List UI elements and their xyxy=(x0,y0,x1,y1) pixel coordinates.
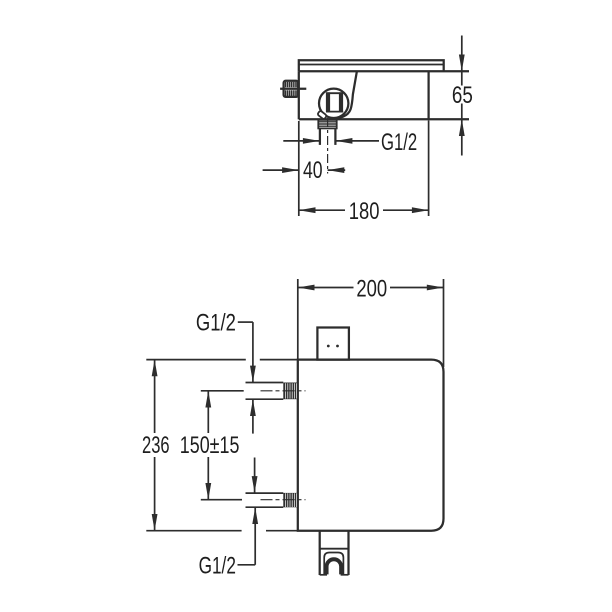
arrow 180 left xyxy=(299,207,316,213)
dim G1/2 right arrow line xyxy=(336,140,379,142)
svg-text:40: 40 xyxy=(303,157,323,184)
G1/2 bottom down arrow line xyxy=(254,458,256,493)
G1/2 top up arrow line xyxy=(252,399,254,433)
spout corner curve xyxy=(329,71,357,119)
plate bottom edge + 65 extension line xyxy=(299,70,469,72)
G1/2 top leader vertical (down arrow) xyxy=(252,322,254,382)
dim 180 line right part xyxy=(383,209,429,211)
handle square top line xyxy=(326,92,343,94)
arrowheads top view xyxy=(282,55,465,214)
dim 65 line lower xyxy=(461,104,463,156)
svg-text:236: 236 xyxy=(142,432,170,459)
shower bracket neck left xyxy=(319,531,321,575)
dim 40 right arrow line xyxy=(328,169,346,171)
dim 236 extension top xyxy=(146,359,297,361)
temp knob knurl xyxy=(286,82,297,96)
holder bottom right edge xyxy=(341,574,349,576)
inlet bottom center line xyxy=(261,499,306,501)
dim 150 line lower xyxy=(207,457,209,500)
handle circle xyxy=(319,89,348,118)
bracket shelf line xyxy=(320,548,349,550)
dim 200 left extension xyxy=(297,279,299,360)
dim 236 line lower xyxy=(154,457,156,531)
G1/2 top leader horizontal xyxy=(238,321,253,323)
arrow 40 right tip xyxy=(282,167,299,173)
dim 150 line upper xyxy=(207,391,209,433)
dim 200 right extension xyxy=(443,279,445,367)
dim 180 left extension xyxy=(298,121,300,216)
arrow 40 left tip xyxy=(328,167,345,173)
arrow G1/2 top up xyxy=(250,399,256,416)
body bottom edge + 65 extension line xyxy=(299,118,469,120)
temp knob body (left, top view) xyxy=(284,81,299,97)
arrowheads front view xyxy=(152,285,444,531)
arrow 150 up xyxy=(205,391,211,408)
top connector box xyxy=(317,328,349,360)
connector dot right xyxy=(336,345,339,348)
temp knob axis line xyxy=(280,88,306,90)
body left edge xyxy=(298,71,300,119)
arrow G1/2 left tip xyxy=(336,138,353,144)
arrow 236 up xyxy=(152,360,158,377)
dim 65 line upper xyxy=(461,36,463,86)
G1/2 bottom leader horizontal xyxy=(238,564,256,566)
outlet center line (dash-dot) xyxy=(327,118,329,174)
dim 150 extension top xyxy=(201,390,244,392)
svg-text:65: 65 xyxy=(452,82,473,109)
inlet top extension top xyxy=(246,382,284,384)
handle square left bar xyxy=(326,92,330,112)
arrow G1/2 bottom up xyxy=(252,507,258,524)
dim 180 right extension xyxy=(428,121,430,217)
dim 180 line left part xyxy=(299,209,345,211)
handle square right bar xyxy=(339,92,343,112)
holder bottom left edge xyxy=(320,574,327,576)
inlet top center line xyxy=(261,390,306,392)
inlet bottom extension bottom xyxy=(246,506,284,508)
dim 200 line left part xyxy=(298,287,354,289)
holder outline xyxy=(324,553,343,575)
svg-text:G1/2: G1/2 xyxy=(196,310,236,337)
body right edge xyxy=(427,71,429,119)
inlet top extension bottom xyxy=(246,398,284,400)
svg-text:G1/2: G1/2 xyxy=(199,553,236,580)
arrow 65 down xyxy=(459,55,465,72)
dim 200 line right part xyxy=(390,287,444,289)
arrow G1/2 top down xyxy=(250,366,256,383)
handle square bottom line xyxy=(326,111,343,113)
dim 150 extension bottom xyxy=(201,499,242,501)
outlet nut knurl xyxy=(319,122,336,126)
deck plate (spout cover) top view xyxy=(299,60,444,71)
arrow 65 up xyxy=(459,119,465,136)
inlet bottom extension top xyxy=(246,492,284,494)
dim G1/2 left arrow line xyxy=(283,140,319,142)
dim 236 extension bottom xyxy=(146,530,297,532)
panel body xyxy=(298,360,444,531)
svg-text:200: 200 xyxy=(356,276,387,303)
lever notch xyxy=(317,110,327,119)
shower bracket neck right xyxy=(347,531,349,575)
dim 236 line upper xyxy=(154,360,156,433)
connector dot left xyxy=(327,345,330,348)
outlet nut (top view) xyxy=(318,120,336,128)
outlet pipe right line xyxy=(334,128,336,145)
deck plate inner lip line xyxy=(299,64,444,66)
svg-text:180: 180 xyxy=(349,198,380,225)
arrow 200 left xyxy=(298,285,315,291)
arrow 200 right xyxy=(427,285,444,291)
arrow G1/2 bottom down xyxy=(252,476,258,493)
svg-text:150±15: 150±15 xyxy=(180,432,240,459)
arrow 236 down xyxy=(152,514,158,531)
outlet pipe left line xyxy=(319,128,321,145)
arrow G1/2 right tip xyxy=(303,138,320,144)
arrow 150 down xyxy=(205,483,211,500)
arrow 180 right xyxy=(412,207,429,213)
svg-text:G1/2: G1/2 xyxy=(381,129,417,156)
inlet bottom knurl xyxy=(283,493,298,507)
holder U clip xyxy=(327,559,342,574)
dim 40 left arrow line xyxy=(263,169,299,171)
G1/2 bottom up arrow line xyxy=(254,507,256,565)
inlet top knurl xyxy=(283,383,298,400)
